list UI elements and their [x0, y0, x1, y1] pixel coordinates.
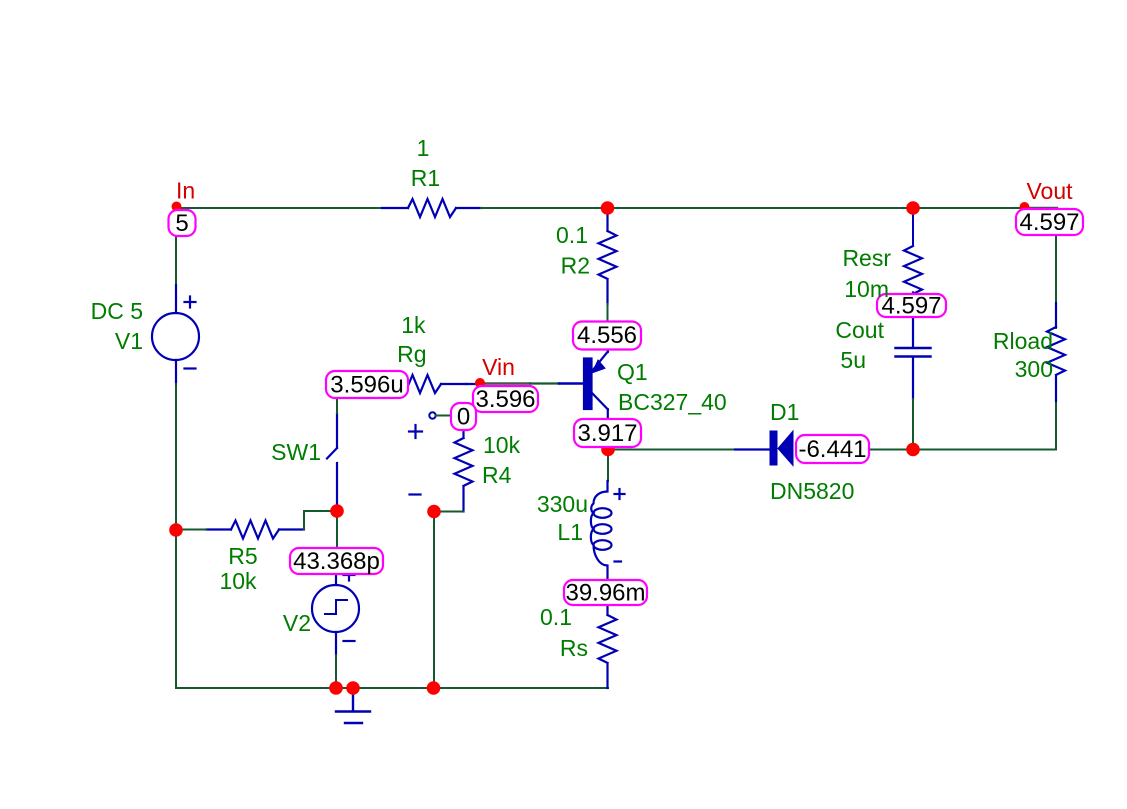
- svg-text:3.917: 3.917: [577, 420, 637, 447]
- svg-text:10m: 10m: [844, 276, 889, 302]
- voltage source V2: [312, 568, 359, 655]
- wire R4 bottom to node: [434, 511, 464, 513]
- bubble 39.96m: [564, 580, 647, 607]
- resistor R4: [455, 430, 473, 512]
- wire V2 to bottom rail: [335, 655, 337, 688]
- svg-text:DC 5: DC 5: [91, 298, 143, 324]
- wire pin to 0 bubble: [436, 415, 451, 417]
- bubble 3.596u: [326, 371, 408, 399]
- svg-text:10k: 10k: [219, 568, 257, 594]
- junction V2 bottom: [329, 681, 343, 695]
- voltage source V1: [152, 285, 199, 384]
- wire V1 to R5 node to bottom rail: [175, 384, 177, 688]
- transistor Q1: [584, 350, 608, 419]
- svg-text:0.1: 0.1: [556, 222, 588, 248]
- svg-text:R5: R5: [228, 543, 257, 569]
- svg-text:Rload: Rload: [993, 328, 1053, 354]
- node In dot: [172, 202, 182, 212]
- svg-text:39.96m: 39.96m: [565, 580, 645, 607]
- wire R5 right step to SW1 node: [304, 511, 337, 530]
- svg-text:0: 0: [457, 404, 470, 431]
- bubble -6.441: [796, 435, 869, 463]
- bubble 4.597 out: [1016, 209, 1083, 236]
- wire Q1 collector node: [607, 446, 609, 481]
- svg-text:Vin: Vin: [482, 354, 515, 380]
- wire Vout stub (dark): [1028, 207, 1057, 209]
- node Vin dot: [475, 378, 485, 388]
- wire SW1 top to Rg node: [336, 384, 338, 413]
- junction SW1 bottom: [330, 504, 344, 518]
- pin marker node 0: [429, 412, 435, 418]
- junction Resr top: [906, 201, 920, 215]
- svg-text:R1: R1: [411, 165, 440, 191]
- capacitor Cout: [896, 316, 931, 399]
- wire In down to V1: [175, 208, 177, 285]
- svg-text:R4: R4: [482, 462, 512, 488]
- svg-text:Rg: Rg: [397, 341, 426, 367]
- wire SW1 node down to V2: [336, 511, 338, 568]
- wire Cout to output node: [912, 399, 914, 450]
- junction R5 left: [169, 523, 183, 537]
- svg-text:BC327_40: BC327_40: [618, 389, 727, 415]
- svg-text:3.596u: 3.596u: [330, 372, 403, 399]
- svg-text:V1: V1: [115, 328, 143, 354]
- svg-text:Rs: Rs: [560, 635, 588, 661]
- svg-text:DN5820: DN5820: [770, 478, 854, 504]
- svg-text:5u: 5u: [840, 347, 866, 373]
- svg-text:V2: V2: [283, 610, 311, 636]
- svg-text:Cout: Cout: [835, 317, 884, 343]
- svg-text:L1: L1: [557, 519, 583, 545]
- wire to Q1 base: [530, 382, 559, 384]
- svg-text:330u: 330u: [537, 491, 588, 517]
- junction R4 bottom: [427, 505, 441, 519]
- svg-text:4.556: 4.556: [577, 322, 637, 349]
- inductor L1: [591, 481, 625, 581]
- svg-text:4.597: 4.597: [881, 293, 941, 320]
- node Vout dot: [1020, 202, 1030, 212]
- svg-text:43.368p: 43.368p: [293, 548, 380, 575]
- wire Vin to Q1 base (dark): [485, 382, 530, 385]
- wire D1 to output node: [869, 449, 1056, 451]
- svg-text:Q1: Q1: [617, 359, 648, 385]
- wire In to R1: [176, 207, 382, 209]
- junction ground: [346, 681, 360, 695]
- bubble node 5: [169, 210, 196, 237]
- junction R1/R2: [601, 201, 615, 215]
- bubble 43.368p: [290, 548, 383, 575]
- bubble 4.556: [573, 322, 641, 350]
- junction R4 rail: [427, 681, 441, 695]
- svg-text:-6.441: -6.441: [798, 436, 866, 463]
- svg-text:SW1: SW1: [271, 439, 321, 465]
- wire output node up Rload: [1055, 401, 1057, 450]
- svg-text:0.1: 0.1: [540, 604, 572, 630]
- resistor R2: [599, 209, 617, 304]
- wire bottom rail: [176, 687, 608, 689]
- wire Vout corner down to Rload: [1055, 209, 1057, 328]
- wire R4 node down to bottom rail: [433, 512, 435, 689]
- transistor Q1 base lead: [559, 382, 584, 385]
- bubble 3.917: [574, 419, 641, 447]
- resistor R1: [382, 199, 481, 217]
- svg-text:10k: 10k: [483, 432, 521, 458]
- svg-text:In: In: [176, 178, 195, 204]
- wire Q1 collector to D1: [608, 449, 735, 451]
- svg-text:300: 300: [1015, 356, 1053, 382]
- resistor Rload: [1047, 303, 1065, 401]
- wire R2 to bubble: [607, 304, 609, 323]
- svg-text:D1: D1: [770, 399, 799, 425]
- svg-text:4.597: 4.597: [1019, 209, 1079, 236]
- resistor Resr: [904, 246, 922, 318]
- svg-text:5: 5: [175, 210, 188, 237]
- resistor Rs: [599, 604, 617, 688]
- svg-text:1: 1: [417, 135, 430, 161]
- wire Resr node down: [912, 209, 914, 244]
- bubble 0: [451, 403, 476, 431]
- switch SW1: [327, 413, 337, 509]
- svg-text:3.596: 3.596: [475, 386, 535, 413]
- diode D1: [735, 431, 793, 466]
- value bubbles: [169, 209, 1084, 607]
- svg-text:1k: 1k: [401, 312, 426, 338]
- wire R5 left: [176, 529, 206, 531]
- svg-text:Vout: Vout: [1026, 178, 1073, 204]
- wire Rg to Vin: [466, 383, 480, 385]
- resistor Rg: [393, 375, 466, 393]
- junction Q1 collector: [601, 443, 615, 457]
- bubble 4.597 mid: [877, 293, 946, 320]
- junction Cout bottom: [906, 443, 920, 457]
- resistor R5: [206, 521, 304, 539]
- bubble 3.596: [473, 386, 538, 413]
- wire R1 to R2 node to Resr node: [481, 207, 1021, 209]
- ground: [336, 690, 370, 723]
- svg-text:R2: R2: [561, 253, 590, 279]
- plus mark R4 top: [409, 425, 422, 495]
- svg-text:Resr: Resr: [842, 245, 891, 271]
